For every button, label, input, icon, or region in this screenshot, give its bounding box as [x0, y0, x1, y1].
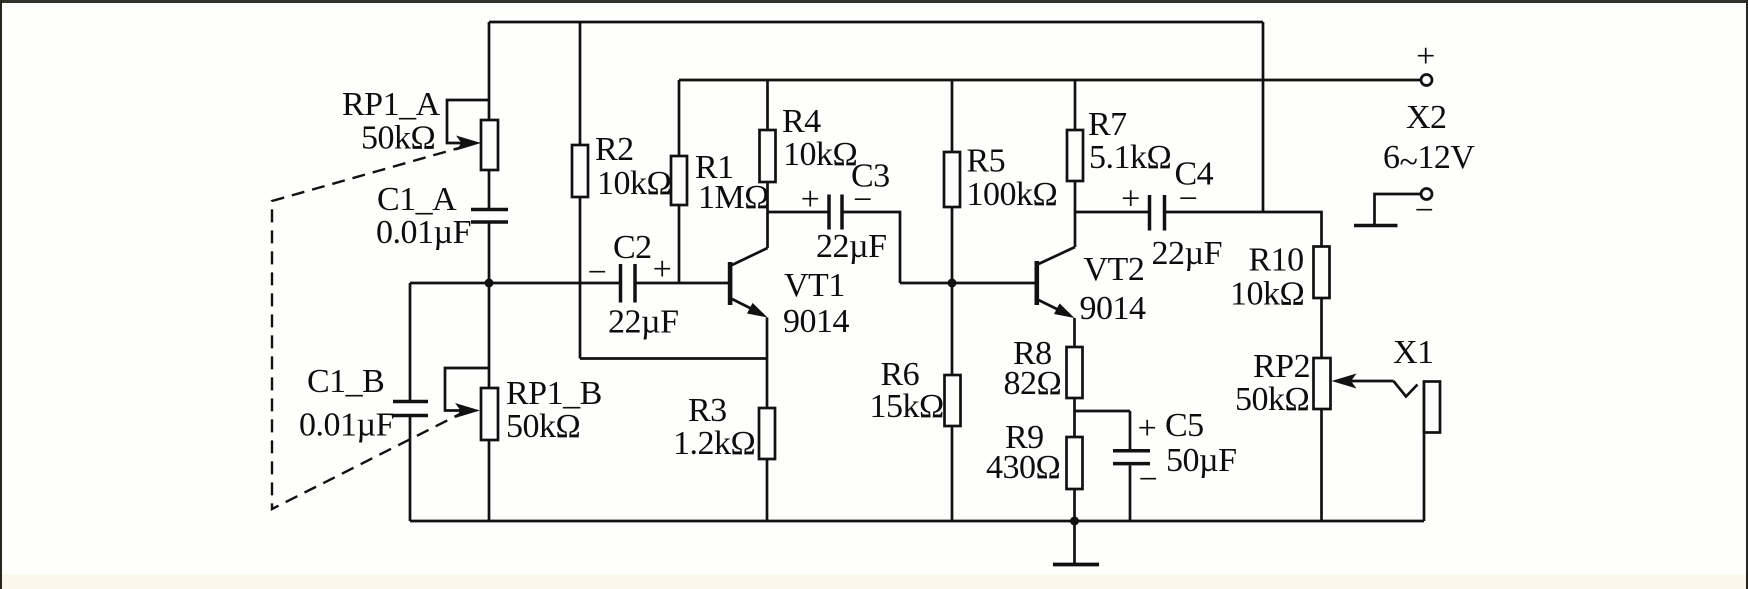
wire: top rail to R2	[579, 22, 582, 145]
connector X1 plug line	[1423, 382, 1426, 522]
VT1 emitter arrowhead	[747, 303, 768, 318]
RP2 wiper arrowhead	[1332, 374, 1357, 389]
wire: node to RP1_B	[488, 283, 491, 388]
svg-text:+: +	[801, 181, 820, 218]
svg-text:X1: X1	[1393, 334, 1434, 371]
svg-text:50kΩ: 50kΩ	[1235, 381, 1309, 418]
wire: R1 to base line	[678, 205, 681, 283]
svg-text:RP2: RP2	[1253, 348, 1310, 385]
wire: emitter junction to R3	[766, 359, 769, 409]
svg-text:−: −	[1415, 192, 1434, 229]
svg-text:−: −	[1139, 461, 1158, 498]
node: VT2 base junction dot	[948, 279, 957, 288]
potentiometer RP1_A body	[481, 120, 498, 170]
capacitor C3 plates	[829, 195, 842, 230]
wire: VT1 collector vertical	[766, 212, 769, 248]
resistor R1 body	[671, 156, 687, 205]
wire: top supply rail	[489, 21, 1263, 24]
node: input junction dot A	[485, 279, 494, 288]
resistor R5 body	[944, 152, 960, 207]
wire: +V rail down to R1	[678, 80, 681, 156]
transistor VT2 base bar	[1035, 261, 1040, 305]
wire: RP2 to bottom rail	[1320, 409, 1323, 521]
terminal X2 minus circle	[1421, 189, 1432, 200]
wire: R6 to bottom rail	[951, 426, 954, 521]
svg-text:5.1kΩ: 5.1kΩ	[1089, 139, 1171, 176]
chassis ground bar at X2	[1354, 224, 1398, 228]
wire: R9 to bottom rail	[1073, 489, 1076, 521]
node: emitter network ground dot	[1070, 517, 1079, 526]
svg-text:R7: R7	[1088, 106, 1127, 143]
wire: +V rail down to R5	[951, 80, 954, 152]
svg-text:6~12V: 6~12V	[1383, 139, 1475, 181]
dashed gang link between RP1_A, RP1_B wipers	[272, 146, 466, 509]
connector X1 body rectangle	[1424, 382, 1440, 433]
wire: R4 to collector node	[766, 182, 769, 212]
wire: +V rail down to R7	[1074, 80, 1077, 130]
wire: C1_B branch vertical upper	[409, 283, 412, 400]
svg-text:X2: X2	[1406, 99, 1447, 136]
VT2 collector diagonal	[1039, 247, 1076, 264]
wire: C4 to R10 corner	[1166, 212, 1322, 247]
capacitor C2 plates	[621, 264, 636, 303]
resistor R10 body	[1314, 247, 1330, 299]
svg-text:22µF: 22µF	[816, 228, 887, 265]
svg-text:50kΩ: 50kΩ	[506, 408, 580, 445]
wire: collector node to C3	[768, 211, 828, 214]
svg-text:C1_B: C1_B	[307, 363, 384, 400]
wire: VT2 emitter vertical to R8	[1073, 318, 1076, 347]
wire: corner to VT2 base through node	[900, 282, 1035, 285]
potentiometer RP1_B body	[481, 388, 498, 440]
wire: R7 to collector node	[1074, 181, 1077, 212]
resistor R2 body	[572, 145, 588, 197]
svg-text:+: +	[1138, 410, 1157, 447]
svg-text:RP1_A: RP1_A	[342, 86, 441, 123]
wire: +V rail (second rail) to X2 plus terminal	[679, 79, 1420, 82]
svg-text:1.2kΩ: 1.2kΩ	[673, 425, 755, 462]
wire: left input vertical (top rail to RP1_A)	[488, 22, 491, 120]
svg-text:1MΩ: 1MΩ	[698, 179, 769, 216]
capacitor C1_B plates	[393, 402, 428, 416]
wire: R8 to R9	[1073, 398, 1076, 437]
svg-text:10kΩ: 10kΩ	[597, 165, 671, 202]
svg-text:−: −	[588, 254, 607, 291]
resistor R9 body	[1067, 437, 1083, 489]
svg-text:C5: C5	[1165, 407, 1204, 444]
resistor R4 body	[760, 130, 776, 182]
wire: R10 to RP2	[1320, 298, 1323, 358]
svg-text:R4: R4	[782, 103, 821, 140]
svg-text:22µF: 22µF	[608, 304, 679, 341]
bottom cream band	[2, 574, 1746, 589]
wire: RP1_B wiper bracket	[445, 368, 489, 411]
svg-text:C2: C2	[613, 229, 652, 266]
wire: R2 down to feedback line	[579, 197, 582, 359]
wire: base node to R6	[951, 283, 954, 375]
svg-text:C1_A: C1_A	[377, 181, 457, 218]
wire: VT2 collector vertical	[1074, 212, 1077, 247]
wire: R5 to base node	[951, 207, 954, 283]
VT1 collector diagonal	[732, 248, 768, 265]
svg-text:+: +	[1121, 181, 1140, 218]
svg-text:0.01µF: 0.01µF	[376, 214, 471, 251]
svg-text:0.01µF: 0.01µF	[299, 407, 394, 444]
capacitor C5 plates	[1113, 451, 1150, 464]
wire: RP1_A wiper bracket	[447, 100, 489, 143]
wire: RP1_B to bottom rail	[488, 440, 491, 521]
wire: top rail descender to C4 line	[1262, 22, 1265, 212]
left dark border line	[0, 0, 2, 589]
wire: base line from C1_B corner through node to C2	[410, 282, 620, 285]
resistor R7 body	[1067, 130, 1083, 181]
svg-text:C3: C3	[851, 158, 890, 195]
svg-text:VT1: VT1	[784, 267, 845, 304]
wire: C2 to VT1 base	[636, 282, 728, 285]
svg-text:15kΩ: 15kΩ	[870, 388, 944, 425]
wire: +V rail down to R4	[766, 80, 769, 130]
svg-text:C4: C4	[1175, 156, 1214, 193]
svg-text:R10: R10	[1249, 242, 1304, 279]
wire: C3 to down corner	[843, 212, 900, 283]
svg-text:430Ω: 430Ω	[986, 449, 1060, 486]
ground symbol bar	[1053, 563, 1099, 567]
ground symbol stem	[1073, 521, 1076, 563]
wire: VT2 collector node to C4	[1075, 211, 1149, 214]
X1 tip spring contact notch	[1394, 381, 1418, 397]
svg-text:RP1_B: RP1_B	[506, 375, 602, 412]
wire: R3 to bottom rail	[766, 459, 769, 521]
svg-text:50µF: 50µF	[1166, 442, 1237, 479]
wire: C1_A to input node	[488, 223, 491, 283]
svg-text:22µF: 22µF	[1152, 235, 1223, 272]
wire: C5 top lead	[1129, 411, 1132, 449]
wire: C5 to bottom rail	[1129, 466, 1132, 522]
resistor R3 body	[759, 408, 775, 459]
svg-text:R3: R3	[688, 392, 727, 429]
svg-text:VT2: VT2	[1084, 251, 1145, 288]
wire: R8/R9 junction to C5	[1075, 410, 1131, 413]
svg-text:R2: R2	[595, 131, 634, 168]
wire: VT1 emitter vertical	[766, 318, 769, 359]
wire: C1_B to bottom rail	[409, 417, 412, 521]
VT2 emitter diagonal	[1039, 300, 1071, 316]
VT1 emitter diagonal	[732, 299, 763, 315]
svg-text:50kΩ: 50kΩ	[361, 120, 435, 157]
wire: bottom ground rail	[410, 520, 1424, 523]
svg-text:9014: 9014	[1080, 290, 1147, 327]
capacitor C1_A plates	[471, 210, 508, 223]
svg-text:9014: 9014	[783, 303, 850, 340]
RP1_A wiper arrowhead	[456, 136, 481, 151]
svg-text:82Ω: 82Ω	[1004, 365, 1062, 402]
RP1_B wiper arrowhead	[455, 403, 480, 418]
resistor R8 body	[1067, 347, 1083, 398]
resistor R6 body	[945, 375, 961, 426]
terminal X2 plus circle	[1421, 75, 1432, 86]
potentiometer RP2 body	[1314, 358, 1331, 409]
right dark border line	[1746, 0, 1748, 589]
svg-text:+: +	[1416, 38, 1435, 75]
svg-text:10kΩ: 10kΩ	[783, 136, 857, 173]
transistor VT1 base bar	[728, 262, 733, 305]
wire: minus terminal to chassis	[1375, 194, 1422, 225]
wire: feedback line R2 to VT1 emitter	[580, 357, 767, 360]
wire: RP1_A to C1_A	[488, 170, 491, 208]
top dark border band	[0, 0, 1748, 3]
VT2 emitter arrowhead	[1054, 303, 1075, 318]
wire: RP2 wiper to X1 tip contact	[1351, 380, 1394, 383]
svg-text:100kΩ: 100kΩ	[967, 176, 1058, 213]
capacitor C4 plates	[1150, 195, 1165, 231]
svg-text:10kΩ: 10kΩ	[1230, 276, 1304, 313]
svg-text:R5: R5	[967, 143, 1006, 180]
